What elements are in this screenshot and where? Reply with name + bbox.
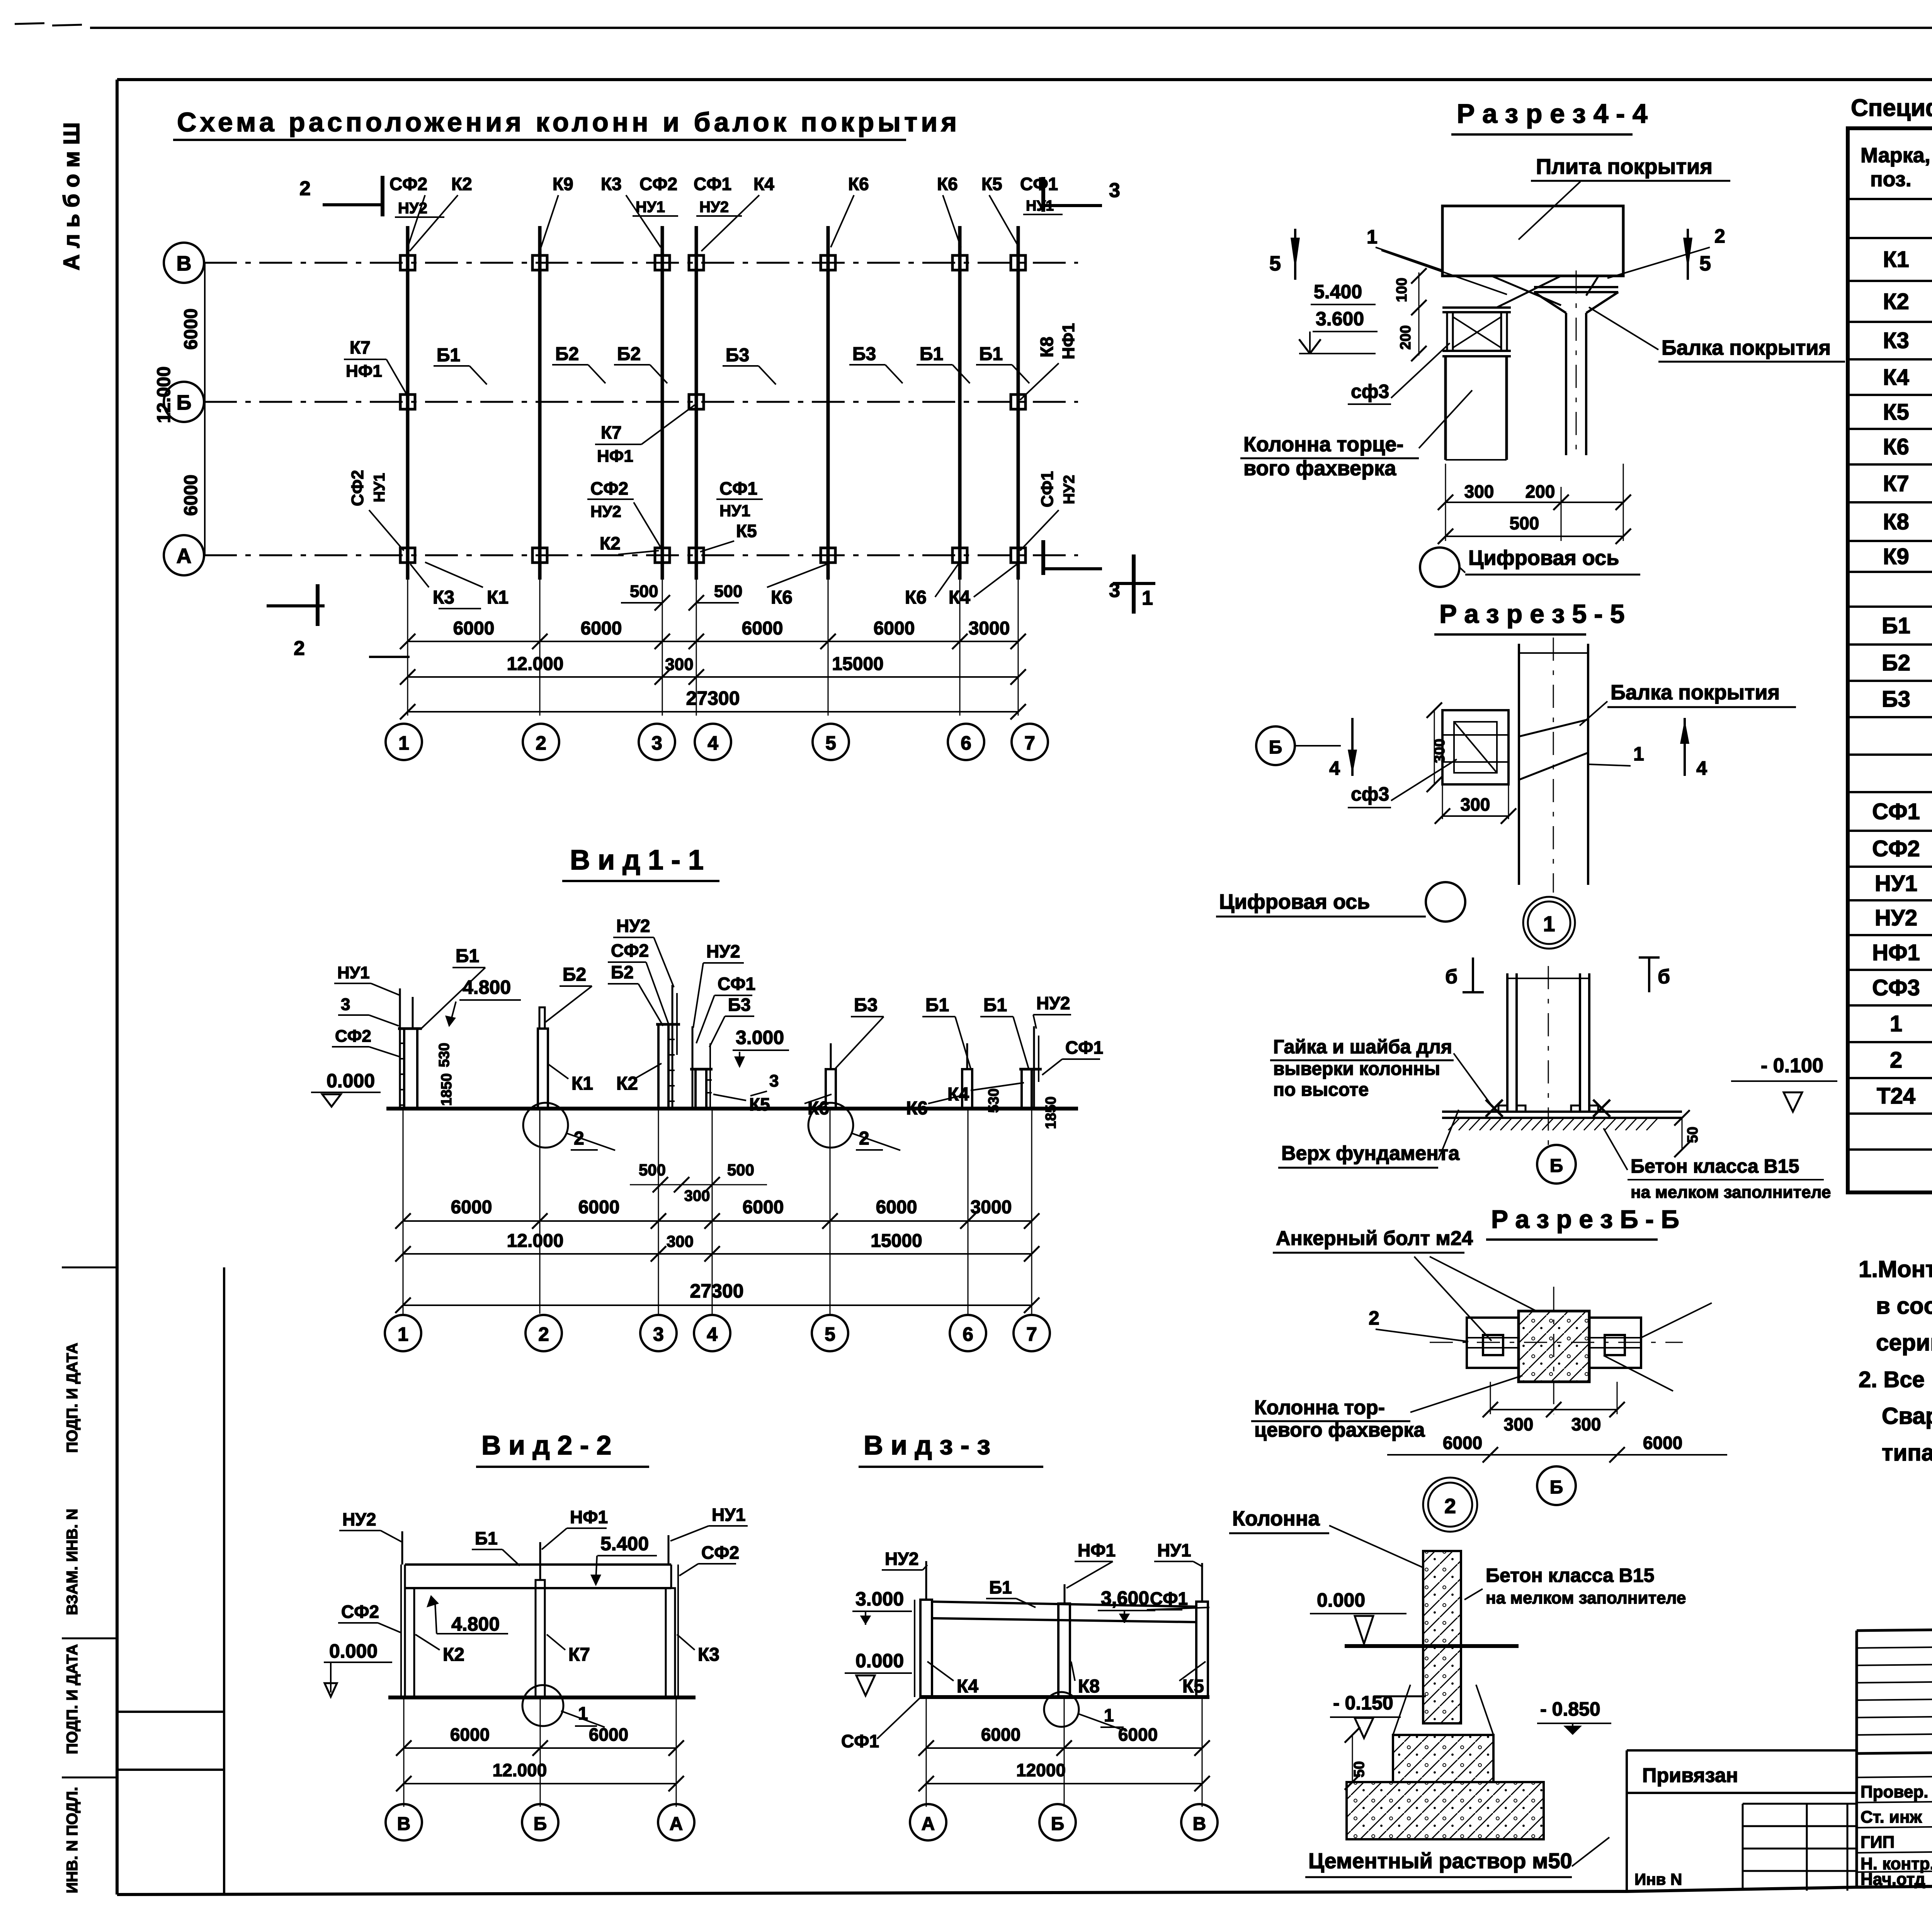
svg-text:500: 500 [1510,513,1539,533]
svg-text:НУ1: НУ1 [1026,198,1054,214]
svg-text:поз.: поз. [1870,168,1912,191]
svg-text:К6: К6 [1883,434,1909,459]
svg-text:6000: 6000 [876,1197,917,1218]
svg-text:серии 1.423-3 ; 1.400-27.1: серии 1.423-3 ; 1.400-27.1 . [1876,1330,1932,1355]
svg-text:0.000: 0.000 [1317,1589,1365,1611]
svg-text:Цифровая ось: Цифровая ось [1219,890,1370,913]
svg-text:В и д з - з: В и д з - з [864,1430,990,1460]
svg-text:В и д 2 - 2: В и д 2 - 2 [481,1430,611,1460]
svg-text:Б: Б [177,391,192,414]
svg-text:СФ2: СФ2 [341,1602,379,1622]
svg-text:Б1: Б1 [983,995,1007,1015]
svg-text:СФ1: СФ1 [1065,1037,1103,1058]
svg-text:15000: 15000 [871,1231,922,1251]
svg-text:5.400: 5.400 [600,1533,649,1554]
svg-text:выверки колонны: выверки колонны [1273,1059,1440,1079]
svg-text:5: 5 [825,732,836,754]
svg-text:К4: К4 [753,174,774,194]
svg-text:Б2: Б2 [617,344,641,364]
svg-text:Нач.отд: Нач.отд [1861,1870,1925,1889]
svg-text:К5: К5 [749,1094,770,1114]
svg-text:ГИП: ГИП [1861,1833,1895,1852]
svg-text:300: 300 [665,655,693,674]
svg-text:НУ2: НУ2 [590,502,621,520]
svg-text:2: 2 [538,1323,549,1345]
svg-text:12.000: 12.000 [507,1231,564,1251]
svg-text:Б1: Б1 [475,1528,498,1548]
svg-text:3.000: 3.000 [855,1588,904,1610]
svg-text:7: 7 [1024,732,1035,754]
svg-text:К5: К5 [736,521,757,541]
svg-text:6000: 6000 [981,1725,1020,1745]
svg-text:Гайка и шайба для: Гайка и шайба для [1273,1036,1452,1058]
svg-text:1: 1 [1633,743,1644,765]
svg-text:В и д 1 - 1: В и д 1 - 1 [570,845,704,876]
svg-text:ВЗАМ. ИНВ. N: ВЗАМ. ИНВ. N [64,1509,81,1616]
svg-text:Р а з р е з 4 - 4: Р а з р е з 4 - 4 [1457,99,1648,129]
svg-text:вого фахверка: вого фахверка [1243,457,1396,480]
svg-text:Колонна: Колонна [1232,1507,1320,1530]
svg-text:К9: К9 [553,174,573,194]
svg-text:3000: 3000 [971,1197,1012,1218]
svg-text:Б: Б [1550,1156,1563,1176]
svg-text:6000: 6000 [743,1197,784,1218]
svg-text:ПОДП. И ДАТА: ПОДП. И ДАТА [64,1343,81,1453]
svg-text:А: А [922,1814,935,1834]
svg-text:6000: 6000 [578,1197,620,1218]
svg-text:А: А [177,544,192,568]
svg-text:3.000: 3.000 [736,1027,784,1048]
svg-text:СФ2: СФ2 [348,470,367,506]
svg-text:Балка покрытия: Балка покрытия [1611,681,1780,704]
svg-text:Т24: Т24 [1877,1083,1915,1109]
svg-text:б: б [1658,966,1670,988]
svg-text:- 0.150: - 0.150 [1333,1692,1393,1714]
svg-text:на мелком заполнителе: на мелком заполнителе [1631,1183,1831,1202]
svg-text:в соответствии со СНиП Ш-1: в соответствии со СНиП Ш-16-80; указания… [1876,1293,1932,1319]
svg-text:1: 1 [1890,1011,1902,1036]
svg-text:Б2: Б2 [611,962,634,982]
svg-text:НФ1: НФ1 [1059,323,1078,359]
svg-text:12.000: 12.000 [154,366,174,423]
svg-text:1: 1 [1543,912,1555,936]
svg-text:А л ь б о м Ш: А л ь б о м Ш [59,122,84,270]
svg-text:2. Все неоговоренные монтаж: 2. Все неоговоренные монтажные швы прини… [1859,1367,1932,1392]
svg-text:К1: К1 [571,1073,593,1094]
svg-text:4: 4 [707,732,718,754]
svg-text:СФ1: СФ1 [719,478,757,498]
svg-text:300: 300 [1504,1414,1534,1434]
svg-text:К2: К2 [443,1645,464,1665]
svg-text:Провер.: Провер. [1861,1782,1928,1801]
svg-text:Анкерный болт м24: Анкерный болт м24 [1276,1227,1473,1250]
svg-text:К6: К6 [906,1098,928,1119]
svg-text:500: 500 [630,582,658,601]
svg-text:12000: 12000 [1016,1760,1066,1780]
svg-text:- 0.850: - 0.850 [1540,1698,1600,1720]
svg-text:4.800: 4.800 [463,976,511,998]
svg-text:К2: К2 [451,174,472,194]
svg-text:Спецификация к схеме распол: Спецификация к схеме расположения колонн… [1851,95,1932,121]
svg-text:6000: 6000 [874,618,915,639]
svg-text:Б3: Б3 [854,995,878,1015]
svg-text:СФ2: СФ2 [389,174,427,194]
svg-text:Цифровая ось: Цифровая ось [1468,546,1619,570]
svg-text:2: 2 [536,732,546,754]
svg-text:Р а з р е з Б - Б: Р а з р е з Б - Б [1491,1205,1679,1233]
svg-text:6000: 6000 [1443,1433,1482,1453]
svg-text:530: 530 [986,1088,1002,1113]
svg-text:Б3: Б3 [1882,687,1910,712]
svg-text:0.000: 0.000 [329,1640,378,1662]
svg-text:К1: К1 [487,587,509,608]
svg-text:К1: К1 [1883,247,1909,272]
svg-text:В: В [1193,1814,1206,1834]
svg-text:НУ1: НУ1 [719,502,750,520]
svg-text:СФ2: СФ2 [701,1543,739,1563]
svg-text:К3: К3 [601,174,622,194]
svg-text:НФ1: НФ1 [597,447,633,466]
svg-text:НФ1: НФ1 [1872,940,1920,965]
svg-text:530: 530 [436,1043,452,1067]
svg-text:Бетон класса В15: Бетон класса В15 [1631,1155,1799,1177]
svg-text:К2: К2 [616,1073,638,1094]
svg-text:3: 3 [341,995,350,1014]
svg-text:СФ1: СФ1 [1020,174,1058,194]
svg-text:1: 1 [1367,226,1378,248]
svg-text:СФ3: СФ3 [1872,975,1920,1000]
svg-text:7: 7 [1026,1323,1037,1345]
svg-text:Бетон класса В15: Бетон класса В15 [1486,1565,1654,1586]
svg-text:НУ2: НУ2 [1036,993,1070,1013]
svg-text:НУ2: НУ2 [885,1549,918,1569]
svg-text:НУ2: НУ2 [342,1509,376,1529]
svg-text:2: 2 [1890,1048,1902,1073]
svg-text:К6: К6 [937,174,958,194]
svg-text:СФ1: СФ1 [1150,1588,1188,1609]
svg-text:15000: 15000 [832,654,883,674]
svg-text:6: 6 [963,1323,973,1345]
svg-text:Б2: Б2 [563,964,586,985]
svg-text:СФ2: СФ2 [639,174,677,194]
svg-text:Плита покрытия: Плита покрытия [1536,154,1713,179]
svg-text:Б1: Б1 [920,344,943,364]
svg-text:1: 1 [1142,587,1153,609]
svg-text:НУ1: НУ1 [1157,1540,1191,1560]
svg-text:Б1: Б1 [979,344,1003,364]
svg-text:Балка покрытия: Балка покрытия [1662,336,1831,359]
svg-text:по высоте: по высоте [1273,1080,1369,1100]
svg-text:5.400: 5.400 [1314,281,1362,303]
svg-text:1.Монтаж железобетонных ко: 1.Монтаж железобетонных конструкций осущ… [1859,1256,1932,1282]
svg-text:500: 500 [714,582,742,601]
svg-text:3: 3 [1109,179,1120,202]
svg-text:- 0.100: - 0.100 [1761,1054,1823,1077]
svg-text:Схема расположения колонн: Схема расположения колонн и балок покрыт… [177,107,960,137]
svg-text:Колонна торце-: Колонна торце- [1243,433,1403,456]
svg-text:100: 100 [1394,278,1410,302]
svg-text:Б3: Б3 [728,995,751,1015]
svg-text:СФ2: СФ2 [611,940,649,961]
svg-text:К4: К4 [947,1084,969,1105]
svg-text:типа Э42А гост 9467-75.: типа Э42А гост 9467-75. [1882,1440,1932,1466]
svg-text:Б: Б [1051,1814,1065,1834]
svg-text:5: 5 [1269,252,1281,275]
svg-text:А: А [670,1814,683,1834]
svg-text:К2: К2 [600,533,621,553]
svg-text:СФ1: СФ1 [694,174,731,194]
svg-text:К8: К8 [1078,1676,1100,1697]
svg-text:К7: К7 [568,1645,590,1665]
svg-text:НУ2: НУ2 [699,199,729,216]
svg-text:НУ1: НУ1 [371,473,388,502]
svg-text:СФ1: СФ1 [841,1731,879,1751]
svg-text:6000: 6000 [581,618,622,639]
svg-text:К6: К6 [905,587,927,608]
svg-text:27300: 27300 [690,1280,743,1302]
svg-text:1: 1 [398,732,409,754]
svg-text:6000: 6000 [1118,1725,1158,1745]
svg-text:НФ1: НФ1 [1078,1540,1116,1560]
svg-text:4: 4 [1329,757,1340,779]
svg-text:200: 200 [1526,481,1555,502]
svg-text:6000: 6000 [742,618,783,639]
svg-text:6000: 6000 [589,1725,628,1745]
svg-text:200: 200 [1398,325,1414,350]
svg-text:Верх фундамента: Верх фундамента [1281,1142,1460,1165]
svg-text:5: 5 [825,1323,835,1345]
svg-text:НУ1: НУ1 [337,963,370,982]
svg-text:сф3: сф3 [1351,381,1389,402]
svg-text:4: 4 [1696,757,1707,779]
svg-text:4: 4 [707,1323,718,1345]
svg-text:Б1: Б1 [437,345,460,366]
svg-text:СФ2: СФ2 [335,1027,371,1046]
svg-text:6000: 6000 [451,1197,492,1218]
svg-text:50: 50 [1685,1127,1701,1143]
svg-text:2: 2 [1714,225,1725,247]
svg-text:К9: К9 [1883,544,1909,569]
svg-text:Б2: Б2 [1882,650,1910,675]
svg-text:НУ2: НУ2 [1875,905,1917,930]
svg-text:НУ1: НУ1 [1875,871,1917,896]
svg-text:на мелком заполнителе: на мелком заполнителе [1486,1588,1686,1607]
svg-text:3: 3 [769,1071,779,1090]
svg-text:СФ2: СФ2 [1872,836,1920,861]
svg-text:К8: К8 [1883,509,1909,534]
svg-text:К7: К7 [350,337,371,357]
svg-text:Колонна тор-: Колонна тор- [1254,1396,1385,1419]
svg-text:1: 1 [1104,1705,1114,1725]
svg-text:300: 300 [667,1232,694,1250]
svg-text:27300: 27300 [686,687,740,709]
svg-text:сф3: сф3 [1351,783,1389,805]
svg-text:К2: К2 [1883,289,1909,314]
svg-text:В: В [397,1814,411,1834]
svg-text:В: В [177,252,192,275]
svg-text:НФ1: НФ1 [570,1507,608,1527]
svg-text:НУ1: НУ1 [636,199,665,216]
svg-text:500: 500 [639,1161,666,1179]
svg-text:6000: 6000 [450,1725,490,1745]
svg-text:Б1: Б1 [989,1577,1012,1597]
svg-text:5: 5 [1699,252,1711,275]
svg-text:Б: Б [534,1814,547,1834]
svg-text:Б1: Б1 [456,946,479,966]
svg-text:12.000: 12.000 [507,654,564,674]
svg-text:цевого фахверка: цевого фахверка [1254,1419,1425,1441]
svg-text:6000: 6000 [453,618,495,639]
svg-text:СФ1: СФ1 [1872,799,1920,824]
svg-text:К6: К6 [771,587,793,608]
svg-text:3000: 3000 [969,618,1010,639]
svg-text:3,600: 3,600 [1101,1587,1149,1609]
svg-text:2: 2 [1369,1307,1379,1329]
svg-text:Цементный раствор м50: Цементный раствор м50 [1308,1849,1572,1873]
svg-text:12.000: 12.000 [493,1760,547,1780]
svg-text:НУ1: НУ1 [712,1505,745,1525]
svg-text:Р а з р е з 5 - 5: Р а з р е з 5 - 5 [1439,599,1625,629]
svg-text:300: 300 [1464,481,1494,502]
svg-text:НУ2: НУ2 [1061,475,1078,504]
svg-text:К8: К8 [1037,337,1057,357]
svg-text:1850: 1850 [439,1073,455,1106]
svg-text:К5: К5 [1182,1676,1204,1697]
svg-text:1850: 1850 [1043,1096,1059,1129]
svg-text:Ст. инж: Ст. инж [1861,1808,1922,1827]
svg-text:2: 2 [1444,1495,1456,1518]
svg-text:6: 6 [961,732,971,754]
svg-text:СФ1: СФ1 [718,974,755,994]
svg-text:НУ2: НУ2 [706,941,740,961]
svg-text:К3: К3 [1883,328,1909,353]
svg-text:Сварку производить по гос: Сварку производить по гост 5264-80 элект… [1882,1403,1932,1429]
svg-text:2: 2 [299,177,311,200]
svg-text:6000: 6000 [181,474,201,516]
svg-text:3: 3 [653,1323,664,1345]
svg-text:300: 300 [1571,1414,1601,1434]
svg-text:Б1: Б1 [1882,613,1910,638]
svg-text:0.000: 0.000 [855,1650,904,1672]
svg-text:ИНВ. N ПОДЛ.: ИНВ. N ПОДЛ. [64,1787,81,1893]
svg-text:6000: 6000 [181,308,201,350]
svg-text:Привязан: Привязан [1642,1764,1738,1787]
svg-text:2: 2 [294,637,305,660]
svg-text:Б3: Б3 [852,344,876,364]
svg-text:3: 3 [651,732,662,754]
svg-text:6000: 6000 [1643,1433,1682,1453]
svg-text:НФ1: НФ1 [346,362,382,381]
svg-text:НУ2: НУ2 [616,916,650,936]
svg-text:3.600: 3.600 [1316,308,1364,330]
svg-text:ПОДП. И ДАТА: ПОДП. И ДАТА [64,1644,81,1754]
svg-text:300: 300 [1461,794,1490,815]
svg-text:Инв N: Инв N [1634,1870,1682,1888]
svg-text:К3: К3 [433,587,454,608]
svg-text:СФ1: СФ1 [1038,471,1057,507]
svg-text:К5: К5 [1883,400,1909,425]
svg-text:Марка,: Марка, [1861,144,1930,167]
svg-text:Б3: Б3 [726,345,749,366]
svg-text:б: б [1445,966,1458,988]
svg-text:К7: К7 [1883,471,1909,496]
svg-text:К4: К4 [1883,365,1909,390]
svg-text:Б1: Б1 [925,995,949,1015]
svg-text:СФ2: СФ2 [590,478,628,498]
svg-text:К5: К5 [981,174,1002,194]
svg-text:К4: К4 [949,587,970,608]
svg-text:К4: К4 [957,1676,978,1697]
svg-text:Б: Б [1550,1477,1563,1498]
svg-text:К3: К3 [698,1645,719,1665]
svg-text:К6: К6 [848,174,869,194]
svg-text:0.000: 0.000 [327,1070,375,1092]
svg-text:1: 1 [398,1323,408,1345]
svg-text:500: 500 [727,1161,754,1179]
svg-text:К7: К7 [601,422,622,442]
svg-text:Б: Б [1269,737,1282,758]
svg-text:4.800: 4.800 [451,1613,500,1635]
svg-text:Б2: Б2 [555,344,579,364]
svg-text:300: 300 [684,1187,710,1204]
